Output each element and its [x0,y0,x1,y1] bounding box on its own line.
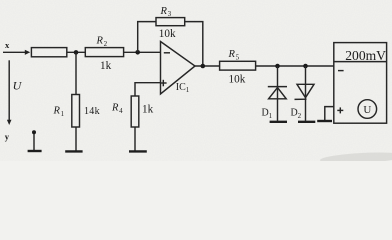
resistor (unlabeled input series box) [31,48,66,57]
svg-text:1: 1 [61,110,65,118]
wire: node A down to R1 [75,52,77,94]
resistor R4 [131,96,139,127]
ground at y terminal [28,150,42,152]
node at D2 (junction dot) [303,64,308,69]
ground below R4 [129,150,147,152]
ground below R1 [65,150,82,152]
svg-text:3: 3 [168,10,172,18]
svg-text:U: U [363,104,371,116]
node A (junction dot) [74,50,79,55]
ground below D1 [270,121,287,123]
wire: node down through D2 to ground [305,66,307,121]
wire: input box to node A [67,51,86,53]
meter minus terminal [338,70,344,72]
svg-text:U: U [13,78,23,92]
wire: feedback up-left from node B to R3 [138,22,156,53]
wire: node down through D1 to ground [277,66,279,121]
svg-text:10k: 10k [229,73,246,85]
input voltage U arrow (x to y) [7,60,12,125]
label R5 [228,49,240,61]
svg-text:1: 1 [186,86,190,94]
ground at meter plus [317,120,332,122]
resistor R5 [220,61,256,70]
diode D1 (cathode bar up, anode triangle below) [268,87,287,99]
label R4 [111,103,123,115]
svg-text:14k: 14k [84,106,100,117]
meter display separator line [334,61,387,63]
resistor R1 [72,95,80,128]
wire: input lead from terminal x with arrowhead [3,50,30,55]
meter plus terminal [337,107,343,113]
label D2 [291,108,302,120]
svg-text:1k: 1k [142,103,154,115]
svg-text:y: y [5,131,10,141]
op-amp U1 (IC1 triangle) [161,42,196,95]
svg-text:10k: 10k [159,28,176,40]
wire: R1 down to ground [75,127,77,151]
inverting input minus sign [164,52,170,54]
wire: meter plus terminal to ground [325,107,334,121]
meter M1 (200mV voltmeter box) [334,43,387,124]
node output (junction dot with feedback) [201,64,206,69]
wire: R4 down to ground [134,127,136,151]
wire: non-inverting input to R4 [135,83,161,96]
diode D2 (anode triangle up, cathode bar below) [295,84,315,99]
svg-text:2: 2 [104,40,108,48]
node B (junction dot at inverting input) [135,50,140,55]
svg-text:4: 4 [119,107,123,115]
label R3 [160,6,172,18]
svg-text:2: 2 [298,112,302,120]
resistor R3 (feedback) [156,18,185,26]
svg-text:1: 1 [269,112,273,120]
label D1 [262,108,273,120]
label R1 [53,106,65,118]
wire: R2 to op-amp inverting input [124,51,161,53]
svg-text:5: 5 [236,53,240,61]
svg-text:R: R [53,106,61,117]
svg-text:R: R [228,49,236,60]
label IC1 [176,82,190,94]
wire: y terminal to ground [33,134,35,150]
non-inverting input plus sign [160,80,167,87]
label R2 [96,36,108,49]
svg-text:200mV: 200mV [345,48,386,63]
terminal dot at y [32,130,36,134]
ground below D2 [298,121,315,123]
node at D1 (junction dot) [275,64,280,69]
wire: op-amp output to R5 [195,65,220,67]
meter movement symbol (circle U) [358,100,377,119]
svg-text:IC: IC [176,82,186,93]
wire: R3 down-right to output node [185,22,203,66]
svg-text:R: R [160,6,168,17]
wire: R5 to meter [256,65,334,67]
svg-text:R: R [111,103,119,114]
resistor R2 [85,48,123,57]
svg-text:R: R [96,36,104,47]
svg-text:1k: 1k [100,60,112,72]
